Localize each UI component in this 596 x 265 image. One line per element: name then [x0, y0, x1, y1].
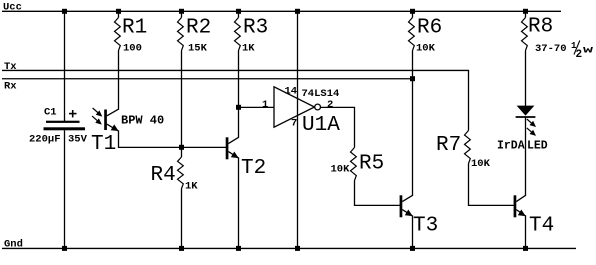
wire T4 emitter to Gnd: [525, 216, 527, 249]
svg-text:35V: 35V: [68, 133, 88, 145]
LED D1 IrDA LED: [497, 106, 548, 153]
junction Gnd/R4: [179, 246, 184, 251]
svg-text:LED: LED: [527, 139, 548, 152]
junction Gnd/T2 emitter: [236, 246, 241, 251]
net Rx: [2, 79, 413, 93]
resistor R2 15K: [178, 11, 212, 54]
wire R6 down through Rx to T3 collector: [412, 51, 414, 196]
svg-text:2: 2: [327, 99, 333, 111]
svg-text:R4: R4: [151, 164, 176, 187]
wire R7 to T4 base: [469, 164, 515, 206]
svg-text:T4: T4: [529, 215, 554, 238]
svg-text:Gnd: Gnd: [4, 238, 23, 250]
junction node: R3 / T2 collector / U1A pin 1: [236, 105, 241, 110]
junction Gnd/C1: [62, 246, 67, 251]
svg-text:Tx: Tx: [4, 61, 17, 73]
svg-text:1K: 1K: [242, 43, 255, 55]
svg-text:U1A: U1A: [302, 114, 340, 137]
wire U1A input pin 1: [239, 106, 275, 108]
svg-text:220µF: 220µF: [29, 133, 61, 145]
svg-text:1K: 1K: [185, 180, 198, 192]
resistor R1 100: [115, 11, 148, 54]
wire Vcc to C1 top plate: [64, 11, 66, 121]
wire R8 to LED anode: [525, 51, 527, 107]
svg-text:R2: R2: [186, 17, 211, 40]
wire U1A power pins 14/7 Vcc to Gnd: [297, 11, 299, 249]
junction Vcc/R1: [116, 9, 121, 14]
svg-text:Rx: Rx: [4, 81, 17, 93]
value label 37-70 1/2W: [535, 41, 594, 62]
svg-text:R6: R6: [417, 17, 442, 40]
junction Vcc/R8: [523, 9, 528, 14]
svg-text:10K: 10K: [416, 43, 436, 55]
junction Vcc/R6: [410, 9, 415, 14]
svg-text:T2: T2: [241, 157, 266, 180]
wire R1 to T1 collector: [118, 51, 120, 110]
resistor R8 37-70 1/2W: [522, 11, 554, 50]
resistor R4 1K: [151, 147, 199, 192]
transistor T4 NPN: [514, 195, 555, 237]
wire R5 to T3 base: [355, 181, 401, 206]
svg-text:Ucc: Ucc: [3, 1, 22, 13]
wire C1 bottom plate to Gnd: [64, 130, 66, 249]
svg-text:T1: T1: [91, 133, 116, 156]
svg-text:R7: R7: [436, 134, 461, 157]
resistor R5 10K: [331, 148, 385, 181]
net Tx (wire from left edge, corner down to R7): [2, 61, 469, 131]
net Ucc power rail: [2, 1, 561, 13]
svg-text:w: w: [583, 45, 594, 57]
svg-text:37-70: 37-70: [535, 43, 567, 55]
transistor T2 NPN: [226, 137, 267, 180]
junction Gnd/T4 emitter: [523, 246, 528, 251]
resistor R3 1K: [235, 11, 269, 54]
junction Gnd/T3 emitter: [410, 246, 415, 251]
junction Vcc/R3: [236, 9, 241, 14]
svg-text:R1: R1: [122, 17, 147, 40]
phototransistor T1 BPW 40: [91, 108, 164, 156]
svg-text:10K: 10K: [471, 158, 491, 170]
junction Vcc/C1: [62, 9, 67, 14]
junction Rx / R6 / T3 collector: [410, 76, 415, 81]
svg-text:IrDA: IrDA: [497, 139, 525, 152]
svg-text:2: 2: [576, 49, 583, 61]
transistor T3 NPN: [400, 195, 439, 237]
svg-text:R3: R3: [243, 17, 268, 40]
svg-text:100: 100: [123, 43, 142, 55]
svg-text:1: 1: [262, 99, 268, 111]
wire R4 to Gnd: [181, 189, 183, 250]
svg-text:14: 14: [285, 85, 298, 97]
wire T3 emitter to Gnd: [412, 216, 414, 249]
junction Vcc/R2: [179, 9, 184, 14]
resistor R7 10K: [436, 131, 491, 170]
junction base node (T1 emitter / R2 / R4): [179, 145, 184, 150]
resistor R6 10K: [409, 11, 443, 54]
wire R2 to T2 base node: [181, 51, 183, 148]
svg-text:15K: 15K: [188, 43, 208, 55]
wire U1A output to R5: [321, 107, 355, 147]
svg-text:C1: C1: [44, 107, 57, 119]
net Gnd rail: [2, 238, 576, 250]
capacitor C1 220uF 35V electrolytic: [29, 107, 88, 146]
op-amp/inverter U1A 74LS14: [274, 87, 340, 137]
wire LED cathode to T4 collector: [525, 117, 527, 195]
svg-text:74LS14: 74LS14: [302, 88, 340, 100]
svg-text:R5: R5: [359, 153, 384, 176]
svg-text:10K: 10K: [331, 163, 351, 175]
svg-text:T3: T3: [413, 215, 438, 238]
junction Vcc/U1A pin14: [295, 9, 300, 14]
wire R3 to T2 collector / U1A input node: [238, 51, 240, 138]
wire T1 emitter down and right to T2 base: [119, 131, 227, 147]
svg-text:7: 7: [291, 118, 297, 130]
wire T2 emitter to Gnd: [238, 158, 240, 249]
junction Gnd/U1A pin7: [295, 246, 300, 251]
svg-text:R8: R8: [528, 16, 553, 39]
svg-text:BPW 40: BPW 40: [121, 113, 164, 127]
